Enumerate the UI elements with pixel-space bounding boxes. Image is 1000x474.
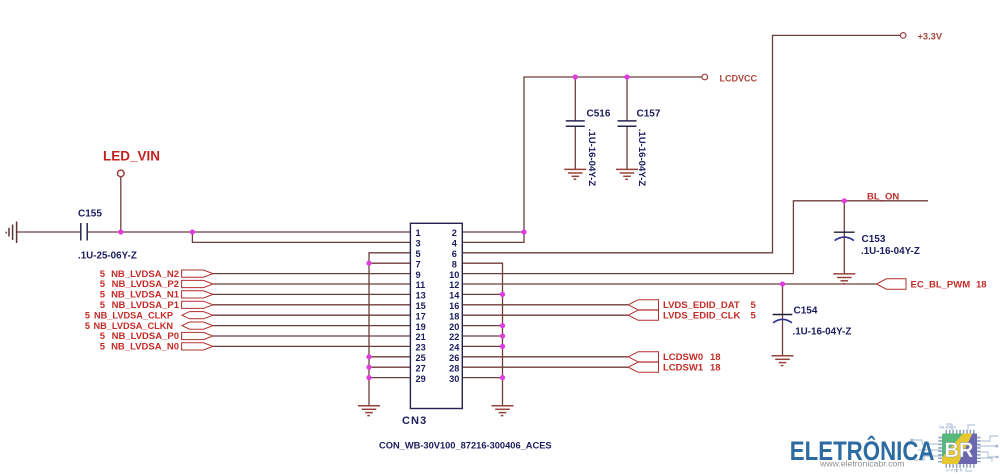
svg-text:9: 9 [416, 270, 421, 280]
svg-text:.1U-16-04Y-Z: .1U-16-04Y-Z [636, 129, 647, 187]
svg-text:IIa dIIcc: IIa dIIcc [938, 425, 957, 430]
svg-text:10: 10 [449, 270, 459, 280]
svg-text:www.eletronicabr.com: www.eletronicabr.com [819, 459, 905, 469]
svg-text:22: 22 [449, 332, 459, 342]
svg-text:19: 19 [416, 322, 426, 332]
svg-text:LCDVCC: LCDVCC [720, 74, 758, 84]
svg-text:5: 5 [85, 321, 90, 331]
svg-text:12: 12 [449, 280, 459, 290]
svg-text:5: 5 [751, 300, 757, 311]
svg-text:5: 5 [100, 300, 106, 311]
svg-text:18: 18 [710, 362, 721, 373]
svg-text:13: 13 [416, 291, 426, 301]
svg-text:5: 5 [100, 269, 106, 280]
svg-text:20: 20 [449, 322, 459, 332]
svg-text:C153: C153 [862, 234, 886, 245]
svg-text:5: 5 [751, 310, 757, 321]
svg-text:NB_LVDSA_CLKP: NB_LVDSA_CLKP [94, 310, 173, 320]
svg-text:C155: C155 [78, 208, 102, 219]
svg-text:.1U-16-04Y-Z: .1U-16-04Y-Z [793, 327, 852, 338]
svg-text:EC_BL_PWM: EC_BL_PWM [911, 279, 971, 290]
svg-text:u·v q··k: u·v q··k [946, 468, 963, 473]
svg-text:5: 5 [416, 249, 421, 259]
svg-text:18: 18 [976, 279, 987, 290]
svg-text:BL_ON: BL_ON [867, 191, 899, 202]
svg-text:NB_LVDSA_P2: NB_LVDSA_P2 [112, 279, 179, 290]
svg-text:C157: C157 [637, 109, 661, 120]
svg-text:21: 21 [416, 332, 426, 342]
svg-text:NB_LVDSA_N0: NB_LVDSA_N0 [111, 342, 179, 353]
svg-text:LCDSW1: LCDSW1 [663, 362, 704, 373]
svg-text:26: 26 [449, 353, 459, 363]
svg-text:BR: BR [945, 438, 974, 462]
svg-text:18: 18 [710, 352, 721, 363]
svg-text:NB_LVDSA_N2: NB_LVDSA_N2 [111, 269, 179, 280]
svg-text:+3.3V: +3.3V [918, 32, 943, 42]
svg-text:14: 14 [449, 291, 460, 301]
svg-text:15: 15 [416, 301, 426, 311]
svg-text:4: 4 [452, 239, 458, 249]
svg-text:30: 30 [449, 374, 459, 384]
svg-text:CN3: CN3 [402, 415, 427, 427]
svg-text:.1U-25-06Y-Z: .1U-25-06Y-Z [78, 250, 137, 261]
svg-text:.1U-16-04Y-Z: .1U-16-04Y-Z [586, 129, 597, 187]
svg-text:1: 1 [416, 228, 421, 238]
svg-text:5: 5 [100, 290, 106, 301]
svg-text:27: 27 [416, 363, 426, 373]
svg-text:.1U-16-04Y-Z: .1U-16-04Y-Z [861, 246, 920, 257]
svg-text:LVDS_EDID_CLK: LVDS_EDID_CLK [663, 310, 741, 321]
svg-text:NB_LVDSA_P1: NB_LVDSA_P1 [112, 300, 180, 311]
svg-text:C516: C516 [587, 109, 611, 120]
svg-text:NB_LVDSA_N1: NB_LVDSA_N1 [111, 290, 180, 301]
svg-text:LVDS_EDID_DAT: LVDS_EDID_DAT [663, 300, 740, 311]
svg-text:C154: C154 [794, 306, 818, 317]
svg-text:5: 5 [85, 310, 90, 320]
svg-text:5: 5 [100, 279, 106, 290]
svg-text:LCDSW0: LCDSW0 [663, 352, 703, 363]
svg-text:LED_VIN: LED_VIN [103, 148, 160, 163]
svg-text:3: 3 [416, 239, 421, 249]
svg-text:7: 7 [416, 259, 421, 269]
svg-text:5: 5 [100, 331, 106, 342]
svg-text:28: 28 [449, 363, 459, 373]
svg-text:NB_LVDSA_CLKN: NB_LVDSA_CLKN [94, 321, 174, 331]
svg-text:24: 24 [449, 343, 460, 353]
svg-text:17: 17 [416, 311, 426, 321]
svg-text:23: 23 [416, 343, 426, 353]
svg-text:18: 18 [449, 311, 459, 321]
svg-text:2: 2 [452, 228, 457, 238]
svg-text:25: 25 [416, 353, 426, 363]
svg-text:6: 6 [452, 249, 457, 259]
svg-text:5: 5 [100, 342, 106, 353]
svg-text:16: 16 [449, 301, 459, 311]
svg-text:NB_LVDSA_P0: NB_LVDSA_P0 [112, 331, 179, 342]
svg-text:8: 8 [452, 259, 457, 269]
svg-text:CON_WB-30V100_87216-300406_ACE: CON_WB-30V100_87216-300406_ACES [379, 441, 552, 451]
svg-text:11: 11 [416, 280, 426, 290]
svg-text:29: 29 [416, 374, 426, 384]
